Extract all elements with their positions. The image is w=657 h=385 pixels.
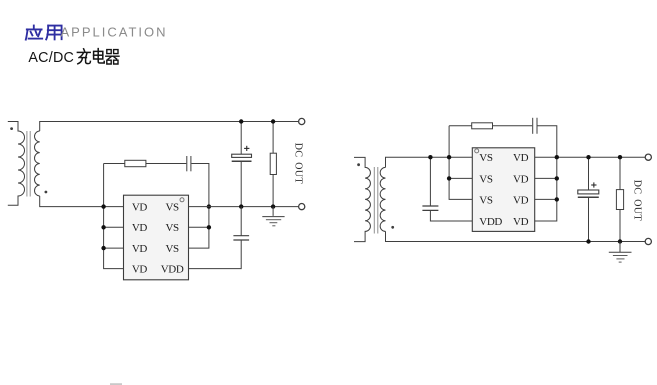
node tie-row1	[207, 204, 211, 208]
capacitor C3 to VDD wire	[189, 240, 242, 269]
resistor R3 snubber	[472, 123, 493, 129]
terminal DC OUT + right	[645, 154, 651, 160]
svg-text:VDD: VDD	[479, 216, 502, 228]
resistor R4 load	[616, 190, 623, 210]
wire secondary bottom to IC	[40, 196, 124, 207]
svg-text:VD: VD	[513, 194, 529, 206]
wire left bus with VDD row	[104, 164, 124, 269]
wire snubber right + right bus + VDD row4	[535, 126, 557, 221]
transformer T2 polarity dot primary	[357, 163, 360, 166]
transformer T1 core	[27, 131, 30, 197]
resistor R2 load	[270, 153, 276, 174]
wire row3 right	[535, 198, 557, 200]
capacitor C2 plus sign	[244, 146, 249, 151]
svg-text:VS: VS	[165, 243, 179, 255]
capacitor C2 electrolytic top wire	[240, 122, 242, 155]
resistor R4 load top wire	[619, 157, 621, 189]
transformer T2 secondary winding	[380, 167, 385, 231]
capacitor C5 snubber	[532, 118, 534, 134]
capacitor C6 negative plate	[578, 196, 599, 198]
node bus2-row2	[555, 176, 559, 180]
node bus-row1	[101, 204, 105, 208]
svg-text:VS: VS	[165, 222, 179, 234]
wire top rail	[40, 122, 299, 132]
node bus2-row3	[555, 197, 559, 201]
node bus-row1	[447, 155, 451, 159]
node bus-row2	[101, 225, 105, 229]
svg-text:VD: VD	[513, 216, 529, 228]
terminal DC OUT -	[299, 204, 305, 210]
transformer T1 secondary winding	[35, 131, 40, 196]
capacitor C6 bottom wire	[588, 197, 590, 241]
wire snubber left	[449, 125, 472, 127]
node tie-row2	[207, 225, 211, 229]
capacitor C4 plates	[422, 205, 438, 207]
faint page artifact bottom	[110, 383, 122, 385]
U2 pin labels	[479, 152, 528, 228]
node bus2-row1	[555, 155, 559, 159]
svg-text:VD: VD	[132, 202, 148, 214]
node bus-row3	[101, 246, 105, 250]
svg-text:VS: VS	[165, 202, 179, 214]
title 用 (blue)	[46, 26, 61, 40]
wire left bus + row3	[449, 126, 472, 200]
capacitor C3 plates	[233, 235, 249, 237]
wire output rail	[189, 206, 299, 208]
capacitor C4 top wire	[429, 157, 431, 206]
svg-text:VD: VD	[132, 264, 148, 276]
svg-text:DC OUT: DC OUT	[292, 143, 303, 184]
svg-text:AC/DC: AC/DC	[28, 50, 74, 66]
wire row2 right	[535, 177, 557, 179]
wire snubber mid	[146, 163, 186, 165]
capacitor C2 bottom wire	[240, 161, 242, 206]
subtitle 器	[106, 50, 119, 64]
capacitor C6 plus sign	[591, 182, 596, 187]
wire row2 left	[104, 226, 124, 228]
wire snubber left	[104, 163, 125, 165]
node electrolytic bottom	[239, 204, 243, 208]
transformer T2 polarity dot secondary	[391, 226, 394, 229]
svg-text:DC OUT: DC OUT	[632, 180, 643, 221]
transformer T1 primary winding	[8, 122, 25, 206]
resistor R1 snubber	[125, 160, 146, 166]
ground G2	[609, 242, 632, 263]
wire output rail	[535, 156, 646, 158]
node cap top	[428, 155, 432, 159]
capacitor C2 negative plate	[232, 160, 252, 162]
terminal DC OUT - right	[645, 238, 651, 244]
node load top	[271, 119, 275, 123]
wire row2 left	[449, 177, 472, 179]
capacitor C4 to VDD pin	[430, 210, 472, 221]
svg-text:VD: VD	[513, 152, 529, 164]
wire snubber mid	[493, 125, 533, 127]
subtitle 充	[77, 49, 90, 64]
svg-text:VS: VS	[479, 152, 493, 164]
node elec top	[586, 155, 590, 159]
resistor R2 load top wire	[272, 122, 274, 154]
svg-text:VD: VD	[132, 243, 148, 255]
transformer T1 polarity dot primary	[10, 127, 13, 130]
resistor R2 load bottom wire	[272, 175, 274, 207]
pin 1 indicator U1	[180, 198, 184, 202]
node elec bottom	[586, 239, 590, 243]
resistor R4 load bottom wire	[619, 210, 621, 242]
wire secondary top to IC	[386, 157, 473, 167]
wire row2 right	[189, 226, 209, 228]
ground G1	[262, 207, 284, 226]
capacitor C2 positive plate	[232, 154, 252, 157]
wire bottom rail	[386, 231, 646, 241]
node load bottom	[271, 204, 275, 208]
svg-text:VD: VD	[132, 222, 148, 234]
capacitor C6 positive plate	[578, 190, 599, 194]
pin 1 indicator U2	[475, 149, 479, 153]
wire snubber right + tie bus + row3 wire	[189, 164, 209, 249]
subtitle 电	[94, 49, 105, 63]
title 应 (blue)	[26, 26, 42, 40]
svg-text:VD: VD	[513, 173, 529, 185]
svg-text:VS: VS	[479, 173, 493, 185]
transformer T2 primary winding	[354, 157, 370, 241]
transformer T1 polarity dot secondary	[45, 191, 48, 194]
capacitor C3 VDD top wire	[240, 207, 242, 236]
svg-text:VDD: VDD	[161, 264, 184, 276]
transformer T2 core	[374, 167, 378, 234]
op-amp U1 IC box	[124, 195, 189, 280]
terminal DC OUT +	[299, 118, 305, 124]
U1 pin labels	[132, 202, 184, 276]
svg-text:APPLICATION: APPLICATION	[61, 25, 168, 40]
node load top	[618, 155, 622, 159]
node electrolytic top	[239, 119, 243, 123]
node bus-row2	[447, 176, 451, 180]
svg-text:VS: VS	[479, 194, 493, 206]
capacitor C6 electrolytic top wire	[588, 157, 590, 190]
op-amp U2 IC box	[472, 148, 534, 232]
node load bottom	[618, 239, 622, 243]
capacitor C1 snubber	[186, 156, 188, 171]
wire row3 left	[104, 247, 124, 249]
